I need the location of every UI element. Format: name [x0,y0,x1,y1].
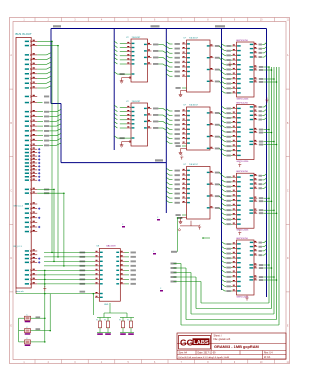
svg-text:Id: 1/1: Id: 1/1 [264,357,271,359]
svg-text:LABS: LABS [193,340,208,346]
svg-text:74LS157: 74LS157 [189,38,199,40]
svg-text:GM71C4256: GM71C4256 [236,171,249,173]
svg-text:GM71C4256: GM71C4256 [237,98,250,100]
svg-text:74LS257: 74LS257 [132,37,142,39]
svg-text:gbus.sch: gbus.sch [16,291,25,293]
svg-text:GND: GND [104,304,109,306]
svg-text:GAL16V8: GAL16V8 [106,245,116,248]
svg-text:GR7_L0..3: GR7_L0..3 [14,206,23,208]
svg-text:GM71C4256: GM71C4256 [236,40,249,42]
svg-text:Rev: 0.4: Rev: 0.4 [264,353,273,355]
svg-text:IN7_L2..3: IN7_L2..3 [14,246,22,248]
svg-text:GRAM/l3 - 1MB gcpRAM: GRAM/l3 - 1MB gcpRAM [214,344,259,349]
svg-text:BUS IN-OUT: BUS IN-OUT [16,32,32,36]
svg-text:File: gwram.sch: File: gwram.sch [214,338,231,341]
svg-text:GM71C4256: GM71C4256 [236,102,249,104]
svg-text:74LS157: 74LS157 [189,164,199,166]
svg-text:Date: 2017-12-09: Date: 2017-12-09 [198,352,217,355]
svg-text:74LS257: 74LS257 [132,101,142,103]
svg-text:GM71C4256: GM71C4256 [236,238,249,240]
svg-text:Size: A4: Size: A4 [179,352,188,355]
svg-text:GG: GG [180,338,194,348]
svg-text:74LS157: 74LS157 [189,105,199,107]
svg-text:Sheet: /: Sheet: / [214,335,223,338]
svg-text:KiCad E.D.A. eeschema 4.1.2+d: KiCad E.D.A. eeschema 4.1.2+dfsg1-3~bpo9… [179,356,230,359]
